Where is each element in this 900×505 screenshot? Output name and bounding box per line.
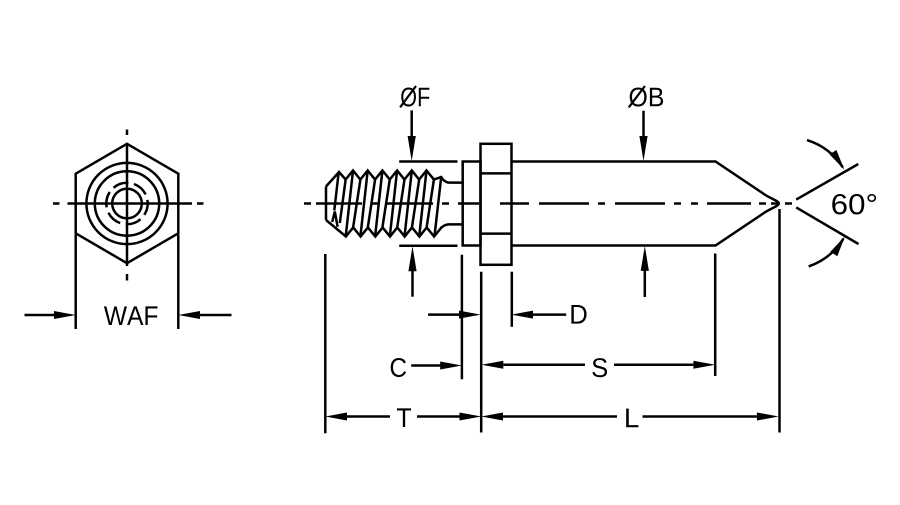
OF label	[401, 87, 429, 106]
extension line: collar right	[511, 272, 514, 327]
L label	[626, 409, 638, 428]
inner pilot circle	[112, 189, 142, 219]
L dimension line with arrows	[481, 413, 778, 421]
side view centerline (dash-dot)	[304, 202, 792, 205]
hex collar	[481, 144, 512, 265]
D dimension left arrow	[428, 311, 481, 319]
T dimension line with arrows	[325, 413, 481, 421]
OF bottom arrow	[408, 246, 416, 296]
OF top arrow	[408, 110, 416, 161]
extension line: cone start	[714, 254, 717, 377]
OB bottom arrow	[641, 246, 649, 297]
vertical centerline of hex view	[126, 130, 129, 281]
T label	[397, 408, 411, 427]
body outline with cone point	[512, 162, 779, 246]
60 degree label	[832, 194, 876, 215]
OB label	[630, 87, 663, 106]
C dimension arrow	[411, 362, 462, 370]
extension line: collar left	[480, 272, 483, 433]
C label	[391, 358, 406, 377]
horizontal centerline of hex view	[53, 202, 204, 205]
upper angle arc with arrowhead	[807, 140, 843, 167]
hexagon head outline (front view)	[76, 144, 179, 263]
WAF extension line left	[74, 235, 77, 330]
WAF dimension arrows	[25, 311, 232, 319]
thread bottom profile	[326, 220, 463, 237]
thread left end face	[325, 187, 328, 221]
S label	[592, 358, 607, 377]
OF dimension extent lines	[399, 162, 457, 246]
D label	[571, 305, 586, 324]
S dimension line with arrows	[482, 361, 716, 369]
WAF label	[104, 306, 158, 325]
extension line: thread start	[324, 254, 327, 433]
washer face flange	[463, 162, 481, 246]
extension line: thread runout end	[461, 255, 464, 379]
extension line: point tip	[778, 209, 781, 433]
thread flank lines	[334, 171, 441, 237]
thread top profile	[326, 171, 463, 187]
shank circle	[95, 171, 159, 235]
60 degree angle lines	[796, 164, 858, 244]
dashed thread circle	[106, 183, 147, 224]
hex collar facet lines	[481, 173, 512, 233]
D dimension right arrow	[511, 311, 566, 319]
incomplete-thread notch	[332, 212, 337, 227]
outer chamfer circle of hex head	[86, 163, 167, 244]
OB top arrow	[639, 111, 647, 161]
WAF extension line right	[177, 235, 180, 330]
lower angle arc with arrowhead	[809, 239, 844, 267]
